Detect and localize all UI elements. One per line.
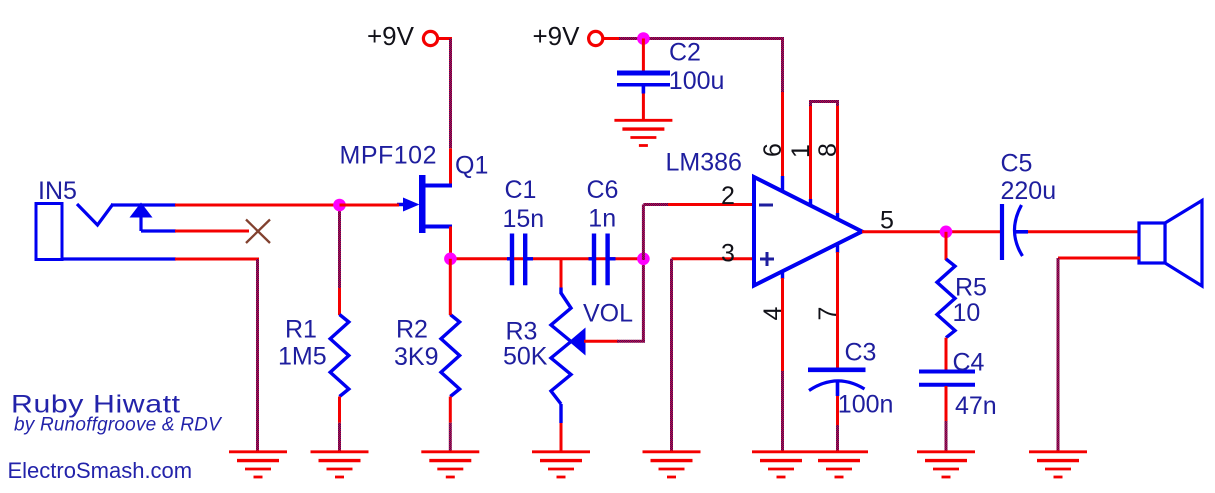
svg-text:LM386: LM386: [666, 149, 742, 177]
input jack IN5: [36, 203, 176, 260]
ground (C2): [614, 120, 672, 145]
wire node E to R5: [945, 232, 948, 260]
capacitor C5: [1002, 204, 1028, 260]
svg-text:50K: 50K: [503, 343, 548, 371]
resistor R1: [330, 315, 349, 397]
wire C1 row (node B to node C): [514, 257, 643, 260]
potentiometer R3: [551, 288, 586, 424]
svg-text:+9V: +9V: [367, 21, 415, 51]
speaker: [1139, 201, 1202, 287]
wire R2 bottom to ground: [449, 397, 452, 452]
svg-text:1n: 1n: [588, 205, 616, 233]
transistor Q1 MPF102 JFET: [397, 175, 452, 233]
node B junction (source/R2/C1): [444, 252, 457, 265]
ground (R3): [532, 452, 590, 477]
svg-text:100u: 100u: [669, 67, 725, 95]
wire R2 top: [449, 259, 452, 315]
pin stub 7: [836, 243, 839, 253]
svg-text:6: 6: [759, 143, 787, 157]
wire node C to pin 2: [643, 205, 755, 261]
no-connect X: [246, 220, 270, 244]
wire C5 to speaker: [1028, 230, 1140, 233]
wire R3 wiper to node C: [584, 259, 645, 342]
svg-text:R1: R1: [285, 316, 317, 344]
terminal +9V circle (LM386 supply): [589, 31, 603, 45]
ground (speaker): [1029, 452, 1087, 477]
wire pins 1-8 loop: [811, 102, 838, 216]
wire +9V to pin 6: [603, 39, 784, 179]
node D junction (+9V/C2): [637, 32, 650, 45]
wire source node to C1: [451, 257, 515, 260]
svg-text:47n: 47n: [955, 392, 997, 420]
ground (input sleeve): [229, 452, 287, 477]
resistor R2: [441, 315, 460, 397]
wire ring (jack to no-connect): [175, 230, 249, 233]
capacitor C2: [617, 73, 670, 94]
svg-text:3: 3: [721, 240, 735, 268]
wire sleeve down to ground: [256, 259, 259, 451]
wire +9V to Q1 drain: [438, 39, 453, 187]
wire pin 5 output: [862, 230, 1000, 233]
wire sleeve horizontal: [175, 258, 259, 261]
svg-text:C2: C2: [669, 39, 701, 67]
terminal +9V circle (Q1 supply): [423, 31, 437, 45]
svg-text:1M5: 1M5: [278, 343, 327, 371]
wire pin 7 to C3: [836, 252, 839, 369]
svg-text:R5: R5: [955, 274, 987, 302]
svg-text:IN5: IN5: [38, 177, 77, 205]
wire +9V to C2: [642, 39, 645, 73]
wire R1 top (node to R1): [338, 205, 341, 315]
wire pin 4 to ground: [781, 278, 784, 451]
svg-text:R2: R2: [396, 316, 428, 344]
resistor R5: [937, 259, 955, 338]
node E junction (pin5/R5/C5): [940, 226, 953, 239]
ground (R1): [311, 452, 369, 477]
wire tip (jack to gate): [175, 204, 398, 207]
svg-text:ElectroSmash.com: ElectroSmash.com: [8, 458, 193, 483]
svg-text:by Runoffgroove & RDV: by Runoffgroove & RDV: [14, 415, 223, 436]
svg-text:VOL: VOL: [583, 300, 633, 328]
svg-text:+9V: +9V: [533, 21, 581, 51]
svg-text:100n: 100n: [838, 391, 894, 419]
pin stub 6: [781, 176, 784, 192]
capacitor C3: [808, 370, 866, 396]
wire C3 to ground: [836, 396, 839, 451]
svg-text:C3: C3: [845, 339, 877, 367]
wire C2 to ground: [642, 94, 645, 120]
pin stub 4: [781, 271, 784, 280]
svg-text:10: 10: [953, 299, 981, 327]
wire R3 tap: [560, 259, 563, 289]
svg-text:C5: C5: [1001, 150, 1033, 178]
svg-text:1: 1: [787, 144, 815, 158]
wire Q1 source down: [449, 227, 452, 259]
svg-text:R3: R3: [506, 318, 538, 346]
wire R1 bottom to ground: [338, 397, 341, 452]
svg-text:Q1: Q1: [455, 152, 488, 180]
svg-text:MPF102: MPF102: [340, 142, 437, 170]
ground (C4): [917, 452, 975, 477]
capacitor C1: [507, 234, 533, 286]
svg-text:2: 2: [721, 182, 735, 210]
node C junction (C6/pin2/VOL): [637, 252, 650, 265]
svg-text:C1: C1: [505, 176, 537, 204]
capacitor C4: [919, 372, 975, 385]
ground (pin 7): [810, 452, 868, 477]
ground (pin 4): [752, 452, 810, 477]
wire C4 to ground: [945, 386, 948, 451]
wire speaker return: [1058, 258, 1140, 451]
ground (pin 3): [643, 452, 701, 477]
svg-text:C6: C6: [587, 176, 619, 204]
pin stub 1: [809, 199, 812, 207]
ground (R2): [421, 452, 479, 477]
capacitor C6: [589, 234, 616, 286]
node A junction (tip/R1/gate): [333, 199, 346, 212]
svg-text:3K9: 3K9: [394, 343, 438, 371]
wire R3 bottom to ground: [560, 423, 563, 451]
svg-text:8: 8: [814, 143, 842, 157]
wire gate (node to Q1): [340, 204, 400, 207]
svg-text:15n: 15n: [503, 205, 545, 233]
op-amp U1 LM386: [754, 177, 862, 286]
svg-text:220u: 220u: [1001, 177, 1057, 205]
pin stub 8: [836, 213, 839, 220]
wire pin 3 to ground: [672, 259, 756, 451]
svg-text:C4: C4: [953, 349, 985, 377]
wire R5 to C4: [945, 338, 948, 372]
